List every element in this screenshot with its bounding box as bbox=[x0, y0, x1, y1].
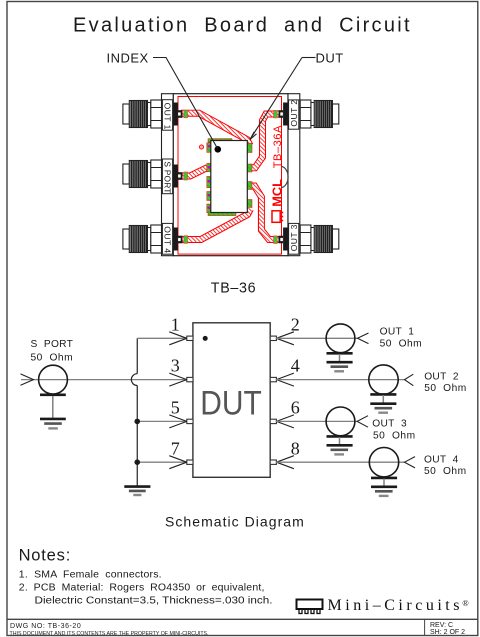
connector label OUT 1 bbox=[162, 100, 172, 131]
label DUT bbox=[316, 51, 344, 66]
pin 1 bbox=[169, 314, 193, 344]
wire bus to pin 1 bbox=[137, 337, 187, 339]
trace S PORT to pin 3 bbox=[181, 168, 208, 177]
S PORT termination bar bbox=[40, 393, 66, 396]
svg-text:7: 7 bbox=[171, 438, 180, 458]
svg-text:50 Ohm: 50 Ohm bbox=[424, 466, 467, 477]
connector pin tab OUT4 bbox=[173, 228, 182, 251]
svg-text:2: 2 bbox=[291, 314, 300, 334]
Mini-Circuits logo package icon bbox=[297, 600, 323, 614]
svg-text:50 Ohm: 50 Ohm bbox=[373, 431, 416, 442]
silkscreen MCL package logo bbox=[272, 211, 283, 223]
DUT chip index dot bbox=[215, 146, 222, 153]
port S PORT labels bbox=[31, 339, 74, 363]
edge pad OUT 1 bbox=[184, 110, 188, 118]
wire pin 2 to OUT1 port bbox=[276, 337, 358, 339]
edge pad OUT 3 bbox=[274, 236, 278, 244]
svg-text:S PORT: S PORT bbox=[163, 161, 173, 193]
pin 8 bbox=[270, 438, 300, 468]
svg-text:50 Ohm: 50 Ohm bbox=[31, 352, 74, 363]
svg-text:S PORT: S PORT bbox=[31, 339, 74, 350]
wire bus to pin 5 bbox=[137, 420, 187, 422]
SMA connector OUT 1 (left top) bbox=[123, 100, 162, 128]
svg-text:1: 1 bbox=[171, 314, 180, 334]
svg-text:8: 8 bbox=[291, 438, 300, 458]
OUT3 termination bar bbox=[327, 435, 353, 438]
wire bus to pin 7 bbox=[137, 461, 187, 463]
svg-text:2. PCB Material: Rogers RO4350: 2. PCB Material: Rogers RO4350 or equiva… bbox=[19, 582, 265, 594]
connector label OUT 4 bbox=[162, 223, 172, 254]
svg-text:4: 4 bbox=[291, 356, 300, 376]
port circle OUT 1 bbox=[326, 324, 355, 353]
svg-text:Evaluation Board and Circuit: Evaluation Board and Circuit bbox=[73, 15, 412, 37]
svg-text:5: 5 bbox=[171, 398, 180, 418]
svg-text:DUT: DUT bbox=[200, 385, 261, 423]
SMA connector OUT 4 (left bottom) bbox=[123, 225, 162, 253]
pin 2 bbox=[270, 314, 300, 344]
bus wire (pins 1,5,7 to ground) bbox=[131, 338, 137, 486]
svg-text:50 Ohm: 50 Ohm bbox=[424, 383, 467, 394]
svg-text:MCL: MCL bbox=[269, 179, 284, 207]
Mini-Circuits logotype bbox=[328, 597, 470, 614]
OUT4 arrow bbox=[405, 457, 416, 468]
junction node pin7 bbox=[134, 459, 140, 465]
trace OUT4 to pin 8 bbox=[181, 209, 251, 240]
pin 4 bbox=[270, 356, 300, 386]
right connector mount strip bbox=[288, 94, 300, 256]
svg-text:Notes:: Notes: bbox=[19, 546, 72, 564]
leader line DUT with arrowhead bbox=[250, 58, 316, 140]
svg-text:SH: 2 OF 2: SH: 2 OF 2 bbox=[430, 629, 465, 636]
port circle OUT 4 bbox=[369, 448, 398, 477]
DUT index dot bbox=[203, 336, 208, 341]
wire pin 4 to OUT2 port bbox=[276, 379, 405, 381]
label INDEX bbox=[107, 51, 149, 66]
svg-text:DWG NO: TB-36-20: DWG NO: TB-36-20 bbox=[10, 623, 81, 630]
svg-text:OUT 4: OUT 4 bbox=[424, 455, 459, 466]
wire pin 6 to OUT3 port bbox=[276, 420, 357, 422]
S PORT input arrow bbox=[21, 374, 34, 385]
edge pad S PORT bbox=[184, 172, 188, 180]
OUT2 ground bbox=[370, 395, 396, 413]
pin 7 bbox=[169, 438, 193, 468]
OUT2 termination bar bbox=[370, 393, 396, 396]
PCB copper edge (red) bbox=[178, 97, 282, 255]
board via (red circle) bbox=[199, 145, 203, 149]
S PORT ground bbox=[40, 396, 66, 428]
OUT4 labels bbox=[424, 455, 467, 477]
svg-text:TB–36A: TB–36A bbox=[272, 125, 284, 168]
OUT3 ground bbox=[327, 437, 353, 454]
svg-text:1. SMA Female connectors.: 1. SMA Female connectors. bbox=[19, 569, 162, 581]
edge pad OUT 2 bbox=[274, 110, 278, 118]
leader line INDEX bbox=[153, 58, 218, 149]
OUT3 arrow bbox=[357, 416, 368, 428]
SMA connector OUT 3 (right bottom) bbox=[300, 225, 339, 253]
pin 6 bbox=[270, 398, 300, 428]
DUT chip pads right column bbox=[247, 143, 252, 207]
DUT chip pads left column bbox=[207, 143, 212, 213]
OUT2 labels bbox=[424, 371, 467, 394]
svg-text:Schematic Diagram: Schematic Diagram bbox=[165, 514, 305, 530]
svg-text:THIS DOCUMENT AND ITS CONTENTS: THIS DOCUMENT AND ITS CONTENTS ARE THE P… bbox=[10, 631, 209, 637]
svg-text:INDEX: INDEX bbox=[107, 51, 149, 66]
svg-text:Mini–Circuits: Mini–Circuits bbox=[328, 597, 460, 614]
DUT chip bottom ground strip bbox=[208, 212, 236, 216]
pin 5 bbox=[169, 398, 193, 428]
svg-text:OUT 3: OUT 3 bbox=[289, 224, 299, 251]
svg-text:®: ® bbox=[462, 598, 469, 608]
trace OUT1 to pin 2 bbox=[181, 113, 250, 145]
title block vertical divider bbox=[424, 619, 426, 635]
trace OUT2 to pin 4 bbox=[251, 114, 279, 168]
svg-text:OUT 1: OUT 1 bbox=[163, 103, 173, 130]
port circle OUT 3 bbox=[326, 407, 355, 436]
svg-text:OUT 2: OUT 2 bbox=[289, 99, 299, 126]
OUT2 arrow bbox=[405, 374, 414, 386]
connector pin tab OUT2 bbox=[279, 103, 288, 126]
OUT4 termination bar bbox=[371, 477, 397, 480]
OUT1 labels bbox=[380, 327, 423, 350]
OUT3 labels bbox=[372, 418, 415, 441]
trace OUT3 to pin 6 bbox=[251, 186, 279, 240]
OUT4 ground bbox=[371, 479, 397, 496]
junction node pin5 bbox=[134, 419, 140, 425]
pin 3 bbox=[169, 356, 193, 386]
DUT block bbox=[193, 323, 270, 478]
wire S PORT to pin 3 bbox=[21, 379, 187, 381]
DUT chip top ground strip bbox=[208, 139, 232, 143]
wire pin 8 to OUT4 port bbox=[276, 461, 405, 463]
edge pad OUT 4 bbox=[184, 236, 188, 244]
connector label OUT 3 bbox=[289, 223, 299, 254]
connector label S PORT bbox=[162, 159, 172, 194]
bus ground bbox=[124, 487, 150, 495]
svg-text:3: 3 bbox=[171, 356, 180, 376]
connector pin tab S PORT bbox=[173, 165, 182, 188]
svg-text:6: 6 bbox=[291, 398, 300, 418]
svg-text:OUT 2: OUT 2 bbox=[424, 371, 459, 382]
DUT chip body bbox=[211, 141, 248, 213]
SMA connector S PORT (left middle) bbox=[123, 160, 162, 188]
svg-text:OUT 3: OUT 3 bbox=[372, 418, 407, 429]
connector label OUT 2 bbox=[289, 99, 299, 129]
board edge notch (right) bbox=[282, 167, 288, 188]
connector pin tab OUT3 bbox=[279, 228, 288, 251]
svg-text:50 Ohm: 50 Ohm bbox=[380, 339, 423, 350]
OUT1 arrow bbox=[358, 333, 369, 344]
title block divider bbox=[7, 618, 478, 620]
OUT1 termination bar bbox=[327, 352, 353, 355]
svg-text:Dielectric Constant=3.5, Thick: Dielectric Constant=3.5, Thickness=.030 … bbox=[35, 594, 273, 606]
OUT1 ground bbox=[327, 354, 353, 371]
svg-text:TB–36: TB–36 bbox=[211, 280, 257, 296]
port circle OUT 2 bbox=[369, 365, 398, 394]
PCB board outline bbox=[173, 94, 288, 256]
svg-text:OUT 4: OUT 4 bbox=[163, 226, 173, 253]
svg-text:DUT: DUT bbox=[316, 51, 344, 66]
svg-text:REV: C: REV: C bbox=[430, 622, 453, 629]
left connector mount strip bbox=[162, 94, 174, 256]
svg-text:OUT 1: OUT 1 bbox=[380, 327, 415, 338]
connector pin tab OUT1 bbox=[173, 103, 182, 126]
port circle S PORT bbox=[39, 365, 68, 394]
SMA connector OUT 2 (right top) bbox=[300, 100, 339, 128]
